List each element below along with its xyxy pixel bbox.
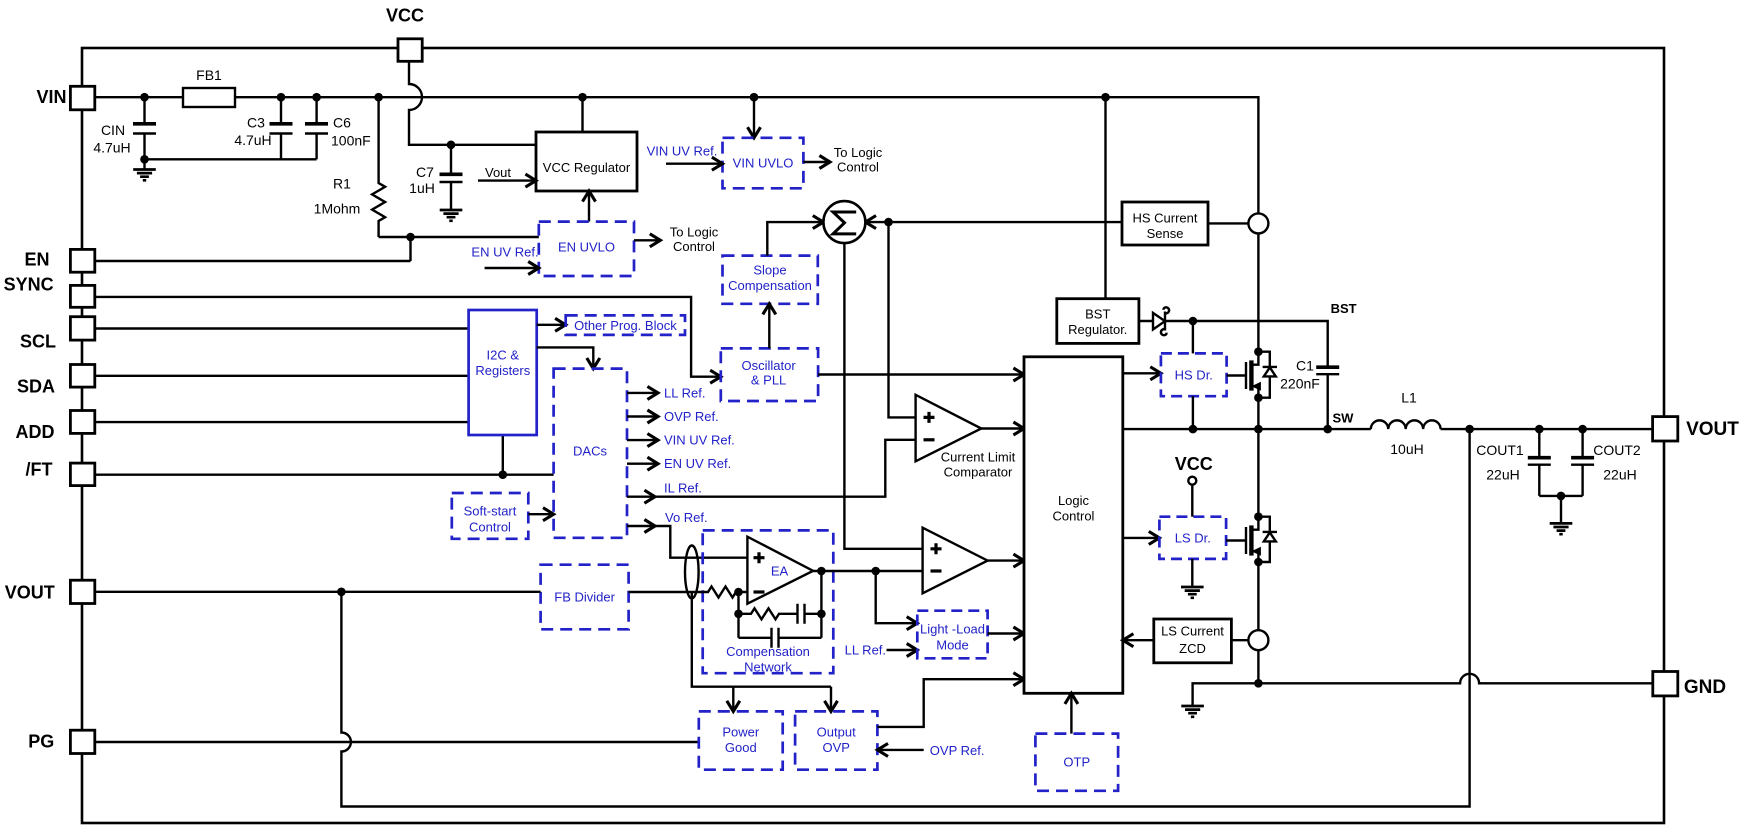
- wire BST to HS driver: [1192, 321, 1194, 353]
- wire I2C to Other Prog Block arrow: [537, 324, 566, 326]
- resistor FB input: [629, 587, 748, 598]
- svg-text:Control: Control: [1053, 509, 1095, 524]
- node LS source ground junction: [1254, 679, 1263, 688]
- pin GND: [1653, 672, 1726, 698]
- svg-text:Compensation: Compensation: [728, 278, 812, 293]
- svg-text:LL Ref.: LL Ref.: [845, 643, 886, 658]
- wire L1 to VOUT pin: [1441, 428, 1653, 430]
- svg-text:SW: SW: [1333, 411, 1355, 426]
- capacitor C6: [305, 97, 371, 159]
- wire Logic Control to LS driver arrow: [1123, 537, 1160, 539]
- wire Logic Control to HS driver arrow: [1123, 372, 1161, 374]
- svg-text:Network: Network: [744, 659, 792, 674]
- svg-text:LS Current: LS Current: [1161, 624, 1224, 639]
- svg-text:1uH: 1uH: [409, 180, 435, 196]
- svg-text:FB Divider: FB Divider: [554, 590, 615, 605]
- wire Vout arrow into VCC Regulator: [478, 165, 536, 181]
- pin ADD: [16, 411, 95, 443]
- block OTP: [1035, 734, 1118, 791]
- svg-text:VIN: VIN: [36, 87, 66, 107]
- ground COUT: [1550, 496, 1573, 534]
- svg-text:CIN: CIN: [101, 122, 125, 138]
- diode BST: [1153, 307, 1169, 335]
- svg-text:EN UVLO: EN UVLO: [558, 240, 615, 255]
- svg-text:& PLL: & PLL: [751, 373, 786, 388]
- node VOUT sense junction: [337, 588, 346, 597]
- wire HS FET source to SW: [1257, 398, 1259, 429]
- wire VIN UVLO to logic control: [803, 145, 882, 175]
- wire Oscillator to Slope Compensation arrow: [768, 304, 770, 349]
- svg-text:HS Current: HS Current: [1132, 211, 1197, 226]
- block Compensation Network: [703, 530, 834, 674]
- wire Vo Ref to EA: [627, 510, 747, 558]
- block Power Good: [699, 711, 783, 769]
- svg-text:Registers: Registers: [475, 363, 530, 378]
- svg-text:Mode: Mode: [936, 637, 969, 652]
- transistor LS FET: [1226, 429, 1277, 566]
- wire EN riser: [409, 237, 411, 261]
- wire OVP Ref arrow: [877, 743, 984, 758]
- wire EA output branch to Light-Load Mode: [876, 571, 918, 623]
- svg-text:VIN UV Ref.: VIN UV Ref.: [664, 433, 735, 448]
- wire EN UVLO to VCC Regulator arrow: [588, 191, 590, 222]
- capacitor CIN: [93, 97, 156, 159]
- wire arrow into Output OVP: [830, 687, 832, 712]
- wire Slope Compensation to summer: [767, 222, 823, 256]
- wire SW rail: [1123, 428, 1371, 430]
- wire Light-Load Mode output: [988, 632, 1024, 634]
- block HS Dr.: [1161, 353, 1227, 396]
- svg-text:Control: Control: [469, 520, 511, 535]
- svg-text:FB1: FB1: [196, 67, 222, 83]
- svg-text:22uH: 22uH: [1603, 466, 1636, 482]
- svg-text:Logic: Logic: [1058, 493, 1090, 508]
- wire remote sense return with hop over PG: [341, 429, 1469, 806]
- wire HS Current Sense to sense bubble: [1208, 222, 1248, 224]
- svg-text:Current Limit: Current Limit: [941, 450, 1016, 465]
- block Output OVP: [795, 711, 877, 769]
- svg-text:COUT1: COUT1: [1476, 442, 1524, 458]
- svg-text:GND: GND: [1684, 677, 1726, 698]
- node VIN rail junctions: [140, 93, 1110, 102]
- svg-text:Oscillator: Oscillator: [742, 358, 797, 373]
- svg-text:C1: C1: [1296, 357, 1314, 373]
- wire LL Ref arrow out of DACs: [627, 385, 705, 400]
- svg-text:4.7uH: 4.7uH: [93, 140, 130, 156]
- op LS Current ZCD block: [1154, 619, 1232, 663]
- node /FT junction: [499, 470, 508, 479]
- wire Output OVP to Logic Control: [877, 679, 1024, 727]
- capacitor C7: [409, 145, 462, 221]
- wire BST regulator output: [1139, 321, 1328, 367]
- svg-text:SYNC: SYNC: [4, 275, 54, 295]
- wire sense into summer arrow: [865, 221, 888, 223]
- svg-text:1Mohm: 1Mohm: [314, 201, 361, 217]
- block LS Dr.: [1159, 517, 1226, 559]
- svg-text:Output: Output: [817, 725, 856, 740]
- svg-text:Vout: Vout: [485, 165, 511, 180]
- pin VCC top: [386, 6, 424, 62]
- pin SCL: [20, 317, 95, 352]
- wire VIN UV Ref arrow out of DACs: [627, 433, 735, 448]
- op HS Current Sense block: [1122, 202, 1208, 245]
- svg-text:SDA: SDA: [17, 377, 55, 397]
- wire R1 bottom to EN UVLO: [379, 236, 539, 238]
- wire VIN UVLO feed arrow: [753, 97, 755, 138]
- svg-text:Soft-start: Soft-start: [464, 504, 517, 519]
- svg-text:VOUT: VOUT: [1686, 419, 1739, 440]
- wire SYNC pin to oscillator: [95, 297, 721, 377]
- sense bubble LS: [1248, 630, 1268, 650]
- comparator PWM: [923, 528, 988, 594]
- ground LS driver: [1181, 559, 1204, 598]
- wire EN UV Ref arrow out of DACs: [627, 456, 731, 471]
- capacitor Cc2 parallel branch: [739, 628, 822, 648]
- wire compensation feedback left leg: [737, 592, 739, 638]
- wire EN pin: [95, 260, 411, 262]
- svg-text:R1: R1: [333, 176, 351, 192]
- node comp branch left: [734, 610, 743, 619]
- svg-text:VOUT: VOUT: [5, 583, 55, 603]
- pin PG: [28, 730, 95, 753]
- capacitor COUT1: [1476, 429, 1551, 496]
- wire COUT common: [1539, 495, 1582, 497]
- wire PWM comparator output: [988, 559, 1024, 561]
- pin VOUT right: [1653, 417, 1740, 441]
- svg-text:Other Prog. Block: Other Prog. Block: [574, 318, 677, 333]
- pin VOUT left: [5, 580, 95, 603]
- svg-text:Light -Load: Light -Load: [920, 622, 985, 637]
- svg-text:EN UV Ref.: EN UV Ref.: [664, 456, 731, 471]
- wire OVP Ref arrow out of DACs: [627, 409, 719, 424]
- svg-text:100nF: 100nF: [331, 133, 371, 149]
- svg-text:DACs: DACs: [573, 443, 607, 458]
- svg-text:Power: Power: [722, 725, 760, 740]
- svg-text:To Logic: To Logic: [834, 145, 883, 160]
- svg-text:COUT2: COUT2: [1593, 442, 1641, 458]
- sense bubble HS: [1248, 213, 1268, 233]
- wire LL Ref into Light-Load Mode: [845, 643, 918, 658]
- svg-text:/FT: /FT: [26, 460, 53, 480]
- node CIN bottom: [140, 155, 149, 164]
- wire VCC pin lead with hop over VIN rail: [409, 60, 536, 145]
- wire arrow into Power Good: [732, 687, 734, 712]
- op BST Regulator block: [1057, 299, 1139, 344]
- wire EA output: [813, 570, 923, 572]
- inductor L1: [1371, 389, 1441, 457]
- svg-text:To Logic: To Logic: [670, 225, 719, 240]
- svg-text:EN: EN: [24, 250, 49, 270]
- svg-text:22uH: 22uH: [1486, 466, 1519, 482]
- svg-text:ADD: ADD: [16, 422, 55, 442]
- ground power stage: [1181, 683, 1258, 717]
- wire SCL pin: [95, 327, 469, 329]
- pin EN: [24, 249, 94, 272]
- node comp branch right: [817, 610, 826, 619]
- wire ADD pin: [95, 421, 469, 423]
- svg-text:EN UV Ref.: EN UV Ref.: [471, 245, 538, 260]
- wire PG pin: [95, 741, 699, 743]
- op VCC Regulator block: [536, 132, 637, 191]
- wire Oscillator to Logic Control: [818, 373, 1024, 375]
- svg-text:BST: BST: [1331, 301, 1357, 316]
- wire I2C bottom stub: [502, 435, 504, 475]
- wire VIN UV Ref arrow: [647, 144, 723, 164]
- svg-text:LL Ref.: LL Ref.: [664, 385, 705, 400]
- svg-text:220nF: 220nF: [1280, 375, 1320, 391]
- node BST to HS driver: [1189, 317, 1198, 326]
- svg-text:Compensation: Compensation: [726, 644, 810, 659]
- node light-load branch: [871, 567, 880, 576]
- svg-text:LS Dr.: LS Dr.: [1175, 531, 1211, 546]
- svg-text:C7: C7: [416, 164, 434, 180]
- svg-text:EA: EA: [771, 564, 789, 579]
- sense pair ellipse: [685, 546, 699, 599]
- wire HS driver to SW: [1192, 396, 1194, 429]
- wire VIN rail: [95, 97, 1259, 213]
- resistor Rc and capacitor Cc series branch: [739, 604, 822, 624]
- capacitor C3: [234, 97, 292, 159]
- wire HS current sense signal: [889, 221, 1123, 223]
- ground under CIN: [133, 159, 156, 180]
- svg-text:C6: C6: [333, 115, 351, 131]
- block Oscillator and PLL: [721, 348, 818, 401]
- svg-text:OVP: OVP: [822, 740, 849, 755]
- svg-text:SCL: SCL: [20, 332, 56, 352]
- ferrite bead FB1: [183, 67, 235, 107]
- pin SDA: [17, 365, 95, 397]
- wire current limit comparator output: [981, 427, 1024, 429]
- pin /FT: [26, 460, 95, 486]
- svg-text:4.7uH: 4.7uH: [234, 132, 271, 148]
- svg-text:Comparator: Comparator: [944, 465, 1013, 480]
- node C7 junction: [447, 141, 456, 150]
- wire IL Ref to current limit comparator: [627, 440, 916, 497]
- node EA output: [817, 567, 826, 576]
- capacitor C1: [1280, 357, 1339, 429]
- wire EN UVLO to logic control: [634, 225, 719, 255]
- svg-text:VCC: VCC: [1175, 454, 1213, 474]
- svg-text:BST: BST: [1085, 307, 1110, 322]
- capacitor COUT2: [1571, 429, 1641, 496]
- transistor HS FET: [1227, 233, 1277, 402]
- wire BST regulator feed: [1104, 97, 1106, 299]
- wire summer output to PWM comparator: [844, 243, 922, 549]
- node VCC bubble: [1188, 477, 1196, 485]
- op Logic Control block: [1024, 357, 1123, 694]
- wire FB monitor drop to supervisors: [692, 592, 831, 687]
- wire VIN rail to VCC Regulator: [581, 97, 583, 132]
- svg-text:Regulator.: Regulator.: [1068, 322, 1127, 337]
- block FB Divider: [541, 565, 629, 630]
- wire EN UV Ref arrow: [471, 245, 538, 269]
- svg-text:Slope: Slope: [753, 263, 786, 278]
- summing node sigma: [823, 201, 865, 243]
- svg-text:OTP: OTP: [1063, 755, 1090, 770]
- svg-text:PG: PG: [28, 732, 54, 752]
- svg-text:HS Dr.: HS Dr.: [1175, 368, 1213, 383]
- pin SYNC: [4, 275, 95, 308]
- svg-text:VCC: VCC: [386, 6, 424, 26]
- op-amp I2C and Registers block: [469, 310, 537, 435]
- svg-text:ZCD: ZCD: [1179, 641, 1206, 656]
- wire GND rail with hop: [1258, 674, 1652, 684]
- svg-text:OVP Ref.: OVP Ref.: [930, 743, 985, 758]
- wire SDA pin: [95, 375, 469, 377]
- wire LS FET source down: [1257, 562, 1259, 683]
- node SW junctions: [1189, 425, 1587, 434]
- svg-text:Vo Ref.: Vo Ref.: [665, 510, 708, 525]
- node EN / R1 junction: [406, 233, 415, 242]
- block DACs: [554, 369, 627, 538]
- svg-text:VIN UV Ref.: VIN UV Ref.: [647, 144, 718, 159]
- svg-text:VCC Regulator: VCC Regulator: [543, 160, 631, 175]
- svg-text:Sense: Sense: [1147, 226, 1184, 241]
- wire ZCD to sense bubble: [1231, 639, 1248, 641]
- wire sense junction to current limit comparator: [889, 222, 916, 417]
- block VIN UVLO: [723, 138, 804, 189]
- wire VCC bubble to LS driver: [1191, 485, 1193, 517]
- svg-text:L1: L1: [1401, 389, 1417, 405]
- block Other Prog. Block: [566, 315, 685, 335]
- svg-text:10uH: 10uH: [1390, 441, 1423, 457]
- svg-text:I2C &: I2C &: [487, 348, 520, 363]
- svg-text:IL Ref.: IL Ref.: [664, 480, 702, 495]
- svg-text:C3: C3: [247, 115, 265, 131]
- node EA minus input: [734, 588, 743, 597]
- wire /FT pin: [95, 474, 554, 476]
- svg-text:Good: Good: [725, 740, 757, 755]
- wire compensation feedback right leg: [820, 571, 822, 638]
- svg-text:VIN UVLO: VIN UVLO: [733, 156, 794, 171]
- wire input filter bottom: [145, 158, 317, 160]
- comparator Current Limit: [916, 395, 1016, 480]
- svg-text:Control: Control: [837, 160, 879, 175]
- block EN UVLO: [539, 222, 634, 276]
- wire ZCD to Logic Control arrow: [1123, 639, 1154, 641]
- resistor R1: [314, 97, 385, 237]
- op-amp EA: [747, 537, 813, 604]
- pin VIN: [36, 86, 94, 110]
- node COUT ground junction: [1557, 492, 1566, 501]
- svg-text:Control: Control: [673, 239, 715, 254]
- block Slope Compensation: [723, 256, 818, 304]
- wire Soft-start to DACs arrow: [528, 513, 553, 515]
- block Light-Load Mode: [917, 611, 987, 659]
- wire VOUT pin to FB Divider: [95, 591, 541, 593]
- node sense junction: [884, 218, 893, 227]
- wire OTP to Logic Control arrow: [1070, 693, 1072, 733]
- svg-text:OVP Ref.: OVP Ref.: [664, 409, 719, 424]
- block Soft-start Control: [452, 493, 529, 539]
- wire I2C to DACs arrow: [537, 347, 594, 368]
